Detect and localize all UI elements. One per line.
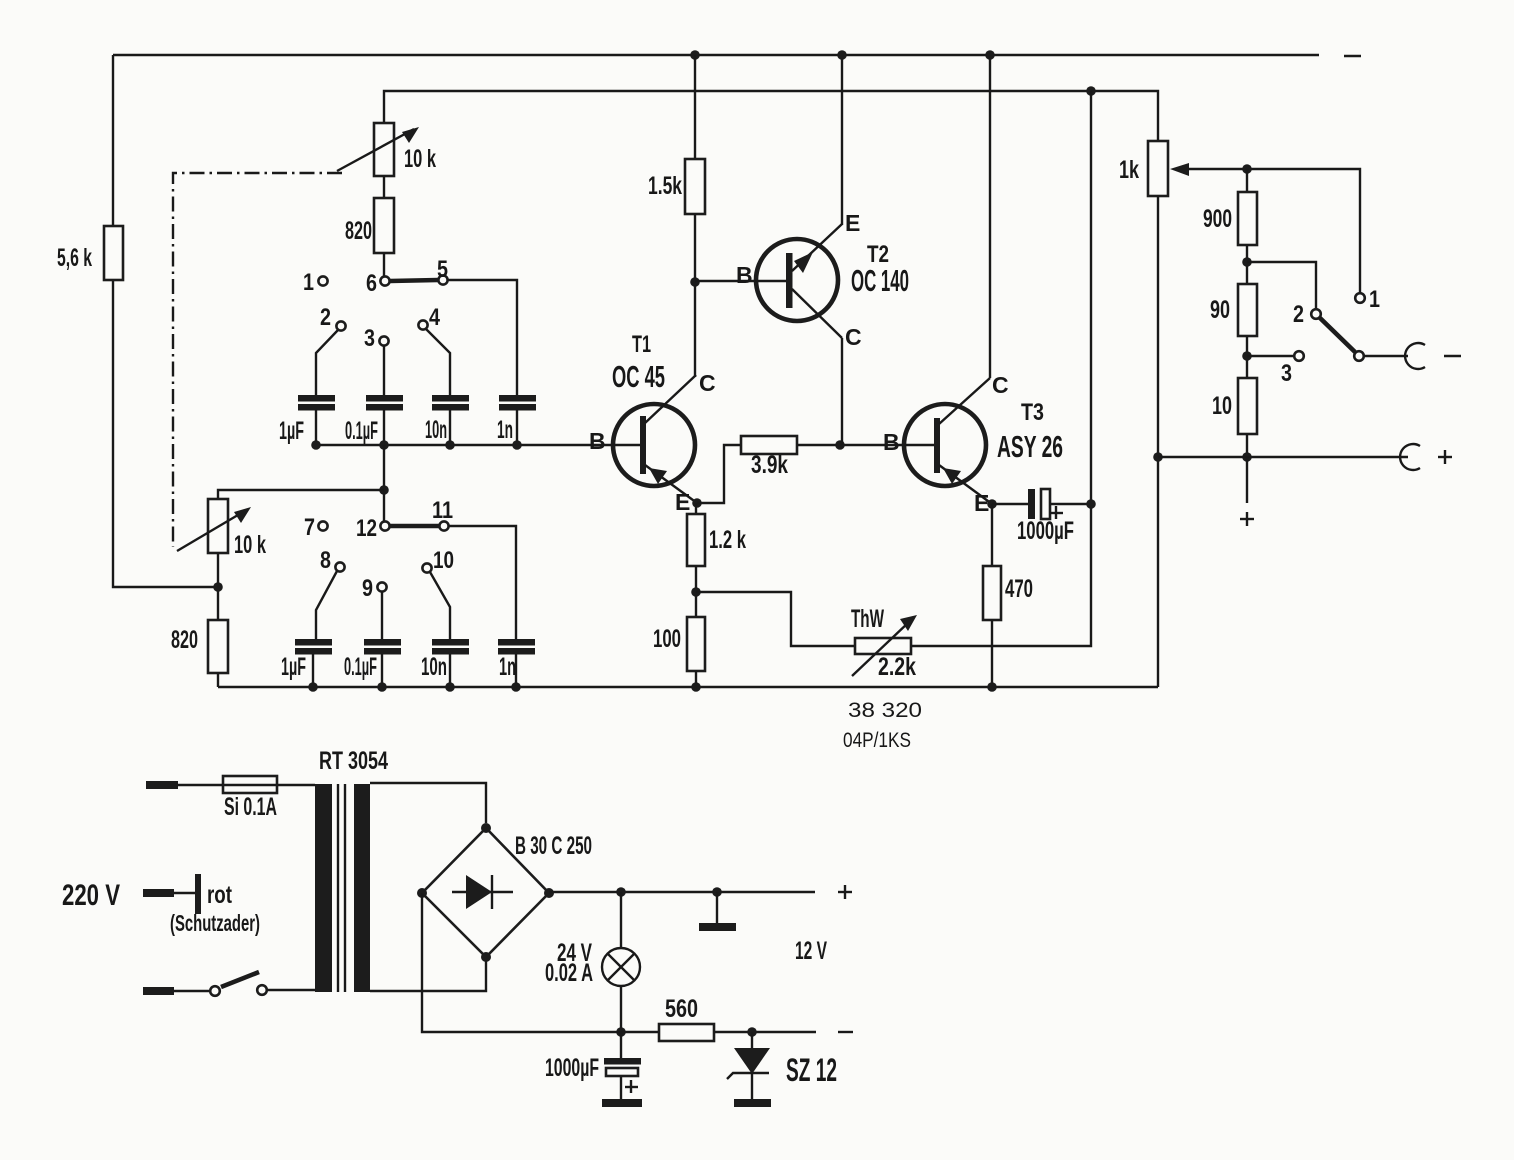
thermistor ThW 2.2k — [851, 605, 917, 681]
svg-text:E: E — [845, 210, 860, 236]
svg-text:2: 2 — [320, 304, 331, 331]
resistor 10 — [1212, 378, 1257, 462]
svg-text:12 V: 12 V — [795, 937, 827, 965]
svg-text:10n: 10n — [421, 653, 447, 681]
switch blade 2 to minus — [1320, 318, 1364, 361]
svg-text:1.2 k: 1.2 k — [709, 526, 746, 554]
node junction second rail — [1086, 86, 1096, 96]
capacitor 1uF upper — [279, 395, 335, 445]
wire bridge plus rail — [549, 887, 815, 897]
svg-text:100: 100 — [653, 625, 681, 653]
wire top negative rail — [113, 54, 1319, 56]
svg-text:3.9k: 3.9k — [751, 451, 788, 479]
svg-text:1µF: 1µF — [279, 417, 304, 445]
svg-text:E: E — [974, 490, 989, 516]
svg-text:10n: 10n — [425, 416, 447, 444]
ground chassis on plus rail — [699, 892, 736, 927]
capacitor 1n upper — [497, 395, 536, 445]
resistor 100 — [653, 617, 705, 692]
wire to minus terminal — [1364, 355, 1408, 357]
wire T2 emitter to top rail — [837, 50, 847, 225]
capacitor 1000uF filter — [545, 1032, 642, 1103]
terminal plus output — [1400, 444, 1452, 470]
capacitor 10n upper — [425, 395, 469, 445]
label catalog number — [843, 699, 922, 752]
svg-text:04P/1KS: 04P/1KS — [843, 729, 911, 752]
bridge rectifier B30C250 — [417, 823, 592, 962]
wire 90 junction to contact 3 — [1247, 355, 1293, 357]
wire capacitor bus to T1 base — [311, 428, 612, 454]
resistor 820 upper — [345, 176, 394, 277]
svg-text:2: 2 — [1293, 301, 1304, 328]
svg-text:4: 4 — [429, 304, 441, 331]
svg-text:10 k: 10 k — [234, 531, 266, 559]
svg-text:OC 140: OC 140 — [851, 263, 909, 298]
capacitor 1000uF output — [992, 489, 1096, 545]
svg-text:B: B — [883, 429, 900, 455]
switch contact 1 output — [1355, 286, 1380, 313]
svg-text:ThW: ThW — [851, 605, 884, 633]
terminal mains line 2 with switch — [143, 972, 315, 996]
svg-text:3: 3 — [1281, 360, 1292, 387]
svg-text:SZ 12: SZ 12 — [786, 1052, 837, 1088]
svg-text:10 k: 10 k — [404, 145, 436, 173]
node lower pot junction left rail — [213, 553, 223, 620]
svg-text:90: 90 — [1210, 296, 1230, 324]
switch contact 3 — [364, 325, 389, 396]
svg-text:220 V: 220 V — [62, 879, 120, 912]
svg-text:B: B — [736, 262, 753, 288]
fuse Si 0.1A — [223, 776, 315, 821]
svg-text:5,6 k: 5,6 k — [57, 244, 92, 272]
svg-text:1000µF: 1000µF — [545, 1054, 599, 1082]
svg-text:560: 560 — [665, 995, 698, 1023]
lamp 24V 0.02A — [545, 892, 640, 1032]
resistor 560 — [607, 995, 816, 1041]
wire contact 11 to 1n column — [448, 526, 516, 640]
switch contact 3 output — [1281, 351, 1304, 387]
wire T1 emitter to 3.9k — [697, 445, 741, 503]
switch contact 11 — [432, 497, 453, 531]
svg-text:0.02 A: 0.02 A — [545, 959, 593, 987]
resistor 1.2k — [687, 503, 746, 617]
svg-text:1: 1 — [1369, 286, 1380, 313]
switch wiper bar 12-11 — [390, 524, 439, 529]
node minus-rail polarity dash — [1344, 55, 1361, 57]
resistor 3.9k — [741, 436, 904, 479]
resistor 90 — [1210, 284, 1257, 378]
svg-text:820: 820 — [171, 626, 198, 654]
label 220 V — [62, 879, 120, 912]
svg-text:C: C — [699, 370, 716, 396]
svg-text:(Schutzader): (Schutzader) — [170, 910, 260, 936]
capacitor 1uF lower — [281, 639, 332, 687]
wire secondary bottom to bridge — [370, 957, 486, 991]
svg-text:0.1µF: 0.1µF — [345, 417, 378, 445]
capacitor 0.1uF lower — [344, 639, 401, 687]
label plus of 12V rail — [838, 885, 852, 899]
wire ThW to right column — [911, 91, 1091, 646]
svg-text:B: B — [589, 428, 606, 454]
switch wiper bar 6-5 — [390, 280, 438, 281]
switch contact 2 output — [1293, 301, 1321, 328]
switch contact 9 — [362, 575, 387, 640]
svg-text:B 30 C 250: B 30 C 250 — [515, 832, 592, 860]
svg-text:1000µF: 1000µF — [1017, 517, 1074, 545]
svg-text:5: 5 — [437, 256, 448, 283]
node plus marker below divider — [1240, 457, 1254, 526]
svg-text:ASY 26: ASY 26 — [997, 429, 1063, 464]
switch contact 1 — [303, 269, 328, 296]
svg-text:OC 45: OC 45 — [612, 359, 665, 394]
svg-text:820: 820 — [345, 217, 372, 245]
svg-text:9: 9 — [362, 575, 373, 602]
svg-text:T3: T3 — [1021, 399, 1044, 426]
zener diode SZ12 — [727, 1032, 837, 1103]
label minus of 12V rail — [838, 1031, 853, 1033]
svg-text:470: 470 — [1005, 575, 1033, 603]
node zener bus junction — [747, 1027, 757, 1037]
resistor 470 — [983, 504, 1033, 692]
svg-text:1k: 1k — [1119, 156, 1139, 184]
svg-text:1: 1 — [303, 269, 314, 296]
switch contact 7 — [304, 514, 328, 541]
svg-text:7: 7 — [304, 514, 315, 541]
svg-text:T1: T1 — [632, 331, 651, 358]
transistor T1 OC45 — [612, 331, 716, 515]
svg-text:1.5k: 1.5k — [648, 172, 682, 200]
wire 1.2k junction to ThW — [696, 592, 855, 646]
switch contact 2 — [316, 304, 346, 396]
switch contact 8 — [316, 547, 345, 640]
terminal minus output — [1405, 343, 1461, 369]
svg-text:2.2k: 2.2k — [878, 653, 916, 681]
svg-text:1n: 1n — [499, 653, 516, 681]
switch contact 5 — [437, 256, 448, 285]
potentiometer 1k — [1119, 141, 1360, 687]
wire contact 5 to 1n column — [447, 280, 517, 396]
svg-text:Si 0.1A: Si 0.1A — [224, 793, 277, 821]
wire bridge minus to bus — [422, 893, 607, 1032]
terminal protective earth rot — [143, 874, 260, 936]
switch contact 6 — [366, 270, 390, 297]
wire ganged coupling dash-dot — [173, 173, 342, 547]
resistor 5.6k — [57, 226, 123, 280]
wire T2 collector down — [841, 338, 843, 445]
wire T3 collector to top rail — [985, 50, 995, 378]
svg-text:1n: 1n — [497, 416, 513, 444]
resistor 900 — [1203, 169, 1257, 284]
resistor 820 lower — [171, 620, 228, 687]
wire 900 junction to contact 2 — [1247, 262, 1316, 309]
transistor T2 OC140 — [695, 210, 909, 350]
node T1 emitter — [692, 498, 702, 508]
terminal mains line 1 — [146, 781, 223, 789]
svg-text:C: C — [992, 372, 1009, 398]
potentiometer 10k upper — [337, 123, 436, 176]
transistor T3 ASY26 — [883, 372, 1063, 516]
svg-text:rot: rot — [207, 881, 233, 909]
switch contact 12 — [356, 515, 390, 542]
capacitor 10n lower — [421, 639, 469, 687]
capacitor 0.1uF upper — [345, 395, 403, 445]
svg-text:6: 6 — [366, 270, 377, 297]
wire 0.1uF column to lower pot — [218, 445, 389, 521]
wire left rail vertical — [113, 55, 218, 587]
node lamp bus junction — [616, 1027, 626, 1037]
svg-text:C: C — [845, 324, 862, 350]
svg-text:3: 3 — [364, 325, 375, 352]
node T3 emitter — [987, 499, 997, 509]
capacitor 1n lower — [498, 639, 535, 687]
svg-text:10: 10 — [1212, 392, 1232, 420]
transformer RT 3054 — [315, 747, 388, 992]
svg-text:900: 900 — [1203, 205, 1232, 233]
wire second rail — [384, 91, 1158, 141]
svg-text:E: E — [675, 489, 690, 515]
resistor 1.5k — [648, 50, 705, 377]
switch contact 10 — [422, 547, 454, 640]
svg-text:8: 8 — [320, 547, 331, 574]
svg-text:1µF: 1µF — [281, 653, 306, 681]
svg-text:38 320: 38 320 — [848, 699, 922, 722]
potentiometer 10k lower — [177, 499, 266, 559]
wire plus rail — [1158, 456, 1408, 458]
wire bottom bus — [218, 682, 1158, 692]
svg-text:RT 3054: RT 3054 — [319, 747, 388, 775]
svg-text:0.1µF: 0.1µF — [344, 653, 377, 681]
svg-text:12: 12 — [356, 515, 377, 542]
svg-text:11: 11 — [432, 497, 453, 524]
label 12 V — [795, 937, 827, 965]
svg-text:10: 10 — [433, 547, 454, 574]
wire secondary top to bridge — [370, 783, 486, 823]
switch contact 4 — [418, 304, 450, 396]
